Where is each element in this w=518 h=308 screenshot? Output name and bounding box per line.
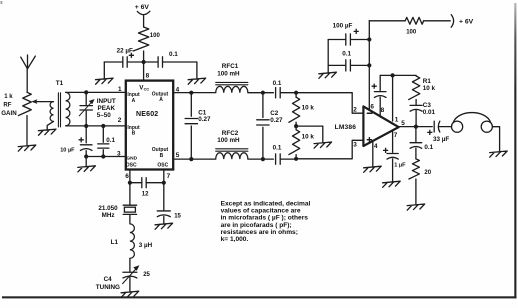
node 0.1 bypass	[367, 63, 371, 67]
capacitor 0.1 bottom coupling	[276, 154, 281, 164]
wire RFC2 to C2	[248, 158, 274, 160]
svg-text:RFC2: RFC2	[222, 130, 239, 137]
node pin1/trimmer junction	[84, 90, 88, 94]
wire 0.1 bottom to 10k	[280, 158, 296, 160]
svg-text:3: 3	[353, 141, 357, 148]
wire NE602 pin 6 down	[129, 170, 131, 183]
wire NE602 pin 4 output A rail	[173, 92, 216, 94]
trimmer capacitor INPUT PEAK 5-50	[85, 92, 87, 126]
transformer T1 primary winding	[41, 101, 54, 103]
node 10k top	[294, 91, 298, 95]
svg-text:0.1: 0.1	[273, 80, 282, 87]
capacitor 0.1 top coupling	[276, 88, 281, 98]
node 100uF	[367, 37, 371, 41]
wire pin 1	[392, 75, 394, 121]
capacitor 10uF gain (pin 8) with plus	[379, 75, 381, 116]
wire crystal to L1	[129, 215, 131, 224]
zobel capacitor 0.1	[415, 127, 417, 159]
inductor L1 3 uH	[130, 224, 135, 258]
wire C4 to ground	[129, 277, 131, 291]
svg-text:20: 20	[424, 170, 431, 176]
transformer T1 core	[58, 93, 60, 127]
pot wiper arrow	[36, 101, 41, 103]
capacitor 22 uF	[104, 61, 143, 63]
ground 0.1 supply left	[188, 78, 206, 84]
plus sign 22uF	[129, 53, 134, 58]
svg-text:12: 12	[142, 192, 149, 198]
svg-text:resistances are in ohms;: resistances are in ohms;	[221, 229, 298, 236]
svg-text:in microfarads ( µF ); others: in microfarads ( µF ); others	[221, 215, 309, 222]
wire bypass caps to ground	[327, 40, 329, 73]
ground 22uF	[96, 78, 114, 84]
svg-text:INPUT: INPUT	[97, 98, 116, 105]
wire pot bottom to ground	[26, 116, 28, 146]
svg-text:C3: C3	[423, 102, 432, 109]
ground phones	[490, 151, 508, 157]
svg-text:0.1: 0.1	[106, 137, 115, 144]
wire C3 to output node	[415, 110, 417, 126]
ground pin 7	[383, 181, 401, 187]
svg-text:8: 8	[146, 73, 150, 80]
resistor 10 k upper	[289, 97, 300, 122]
svg-text:0.1: 0.1	[342, 50, 351, 57]
svg-text:15: 15	[174, 214, 181, 220]
svg-text:3 µH: 3 µH	[139, 242, 153, 249]
wire osc feedback rail	[130, 182, 164, 184]
svg-text:R1: R1	[423, 78, 432, 85]
wire NE602 pin 7 down	[163, 170, 165, 183]
svg-text:T1: T1	[56, 80, 64, 87]
node pin3/0.1 junction	[101, 154, 105, 158]
ground supply bypass	[319, 72, 337, 78]
ground input section	[78, 166, 96, 172]
plus sign 33uF	[427, 130, 432, 135]
capacitor 0.1 (LM386 supply bypass)	[328, 64, 369, 66]
wire T1 secondary top to NE602 pin 1	[66, 91, 126, 93]
capacitor 1 uF (pin 7)	[387, 154, 398, 160]
plus sign 100uF	[354, 29, 359, 34]
node C2 bottom	[261, 157, 265, 161]
svg-text:OSC: OSC	[126, 163, 137, 169]
capacitor 12 pF	[142, 178, 146, 188]
wire 15 pF to ground	[163, 216, 165, 223]
wire L1 to C4	[129, 258, 131, 272]
svg-text:Except as indicated, decimal: Except as indicated, decimal	[221, 200, 311, 207]
capacitor 100 uF	[328, 39, 369, 41]
svg-text:100: 100	[406, 30, 417, 36]
svg-text:5–50: 5–50	[97, 112, 112, 119]
node C1 top	[189, 91, 193, 95]
wire pin 4 to ground	[372, 141, 374, 167]
wire NE602 pin 5 output B rail	[173, 158, 216, 160]
svg-text:8: 8	[381, 107, 385, 114]
capacitor C1 0.27	[190, 93, 192, 159]
RF choke RFC1 100 mH	[216, 86, 248, 92]
node pin2/0.1 junction	[101, 124, 105, 128]
svg-text:25: 25	[143, 272, 150, 278]
wire 0.1 to ground	[196, 62, 198, 79]
svg-text:5: 5	[176, 152, 180, 159]
svg-text:0.1: 0.1	[169, 51, 178, 58]
wire NE602 pin 3 to ground	[86, 156, 126, 158]
RF choke RFC2 100 mH	[216, 153, 248, 159]
capacitor 33 uF output	[434, 121, 440, 132]
wire RFC1 to C2	[248, 92, 274, 94]
svg-text:6: 6	[125, 173, 129, 180]
node C2 top	[261, 91, 265, 95]
svg-text:A: A	[132, 98, 136, 104]
svg-text:PEAK: PEAK	[98, 105, 116, 112]
svg-text:1: 1	[118, 86, 122, 93]
node C1 bottom	[189, 157, 193, 161]
wire resistor to NE602 pin 8	[143, 51, 145, 81]
capacitor 15 pF	[157, 211, 170, 217]
svg-text:100: 100	[150, 33, 161, 39]
plus sign pin 3	[367, 137, 372, 142]
svg-text:0.27: 0.27	[270, 117, 283, 124]
page bottom border	[2, 296, 516, 298]
svg-text:3: 3	[117, 150, 121, 157]
op-amp U2 LM386 body	[363, 106, 398, 146]
svg-text:10 k: 10 k	[423, 85, 436, 92]
svg-text:7: 7	[394, 132, 398, 139]
node pin1 gain rail	[391, 73, 395, 77]
svg-text:0.01: 0.01	[423, 109, 436, 116]
svg-text:10 µF: 10 µF	[60, 147, 75, 153]
wire pin6 node to crystal	[129, 183, 131, 205]
svg-text:OSC: OSC	[157, 163, 168, 169]
svg-text:GAIN: GAIN	[1, 110, 17, 117]
wire to LM386 pin 3	[296, 140, 363, 159]
ground 15pF	[155, 223, 173, 229]
svg-text:0.1: 0.1	[424, 144, 433, 151]
svg-text:C4: C4	[104, 276, 113, 283]
svg-text:NE602: NE602	[136, 111, 158, 118]
ground pin 4	[364, 166, 382, 172]
wire antenna to RF gain pot	[26, 69, 28, 93]
ground pot	[18, 145, 36, 151]
wire 10k midpoint to ground	[296, 126, 323, 142]
wire zobel to ground	[415, 179, 417, 204]
node pin2/trimmer junction	[84, 124, 88, 128]
svg-text:2: 2	[353, 106, 357, 113]
svg-text:GND: GND	[126, 156, 137, 162]
svg-text:2: 2	[118, 117, 122, 124]
plus sign 10uF	[79, 137, 84, 142]
node NE602 supply	[142, 60, 146, 64]
node output	[414, 125, 418, 129]
svg-text:+ 6V: + 6V	[459, 18, 474, 25]
svg-text:are in picofarads ( pF);: are in picofarads ( pF);	[221, 222, 292, 229]
wire pin7 node down to 15 pF	[163, 183, 165, 210]
variable capacitor C4 TUNING 25	[123, 272, 137, 278]
wire to LM386 pin 2	[296, 93, 363, 114]
svg-text:L1: L1	[111, 239, 119, 246]
svg-text:10 k: 10 k	[302, 105, 315, 112]
node pin3/10uF junction	[84, 154, 88, 158]
node 10k middle	[294, 124, 298, 128]
svg-text:0.1: 0.1	[273, 145, 282, 152]
resistor 10 k lower	[289, 130, 300, 155]
svg-text:B: B	[160, 153, 164, 159]
node 10k bottom	[294, 157, 298, 161]
svg-text:RF: RF	[3, 102, 11, 108]
svg-text:+ 6V: + 6V	[135, 4, 150, 11]
svg-text:100 mH: 100 mH	[217, 71, 240, 78]
svg-text:4: 4	[374, 143, 378, 150]
capacitor C3 0.01	[415, 100, 417, 106]
resistor 100 (NE602 supply)	[133, 27, 149, 51]
svg-text:7: 7	[167, 173, 171, 180]
svg-text:10 k: 10 k	[302, 133, 315, 140]
ground T1 primary	[38, 129, 56, 135]
svg-text:values of capacitance are: values of capacitance are	[221, 208, 301, 215]
capacitor 10 uF (electrolytic)	[85, 126, 87, 157]
wire phones to ground	[492, 127, 499, 151]
wire 22uF to ground	[103, 62, 105, 79]
wire +6V rail down to LM386 pin 6	[368, 21, 370, 111]
wire T1 primary bottom to ground	[47, 121, 53, 129]
svg-text:0.27: 0.27	[198, 116, 211, 123]
node pin7	[162, 181, 166, 185]
antenna	[21, 55, 36, 69]
wire 33uF to phones	[439, 126, 452, 128]
svg-text:33 µF: 33 µF	[433, 136, 449, 143]
wire pin 7 bypass	[392, 131, 394, 182]
wire gain rail pin1-pin8-R1	[380, 74, 416, 76]
resistor 20 zobel	[409, 159, 420, 179]
scan artifact top-left	[1, 1, 3, 4]
svg-text:MHz: MHz	[102, 212, 115, 219]
svg-text:100 mH: 100 mH	[217, 137, 240, 144]
svg-text:LM386: LM386	[335, 124, 357, 131]
op-amp U1 NE602 body	[126, 81, 173, 170]
potentiometer R 1k RF GAIN	[18, 92, 31, 115]
supply connector stub right	[451, 15, 453, 28]
svg-text:CC: CC	[144, 87, 150, 92]
node pin6	[128, 181, 132, 185]
capacitor C2 0.27	[262, 93, 264, 159]
ground C4	[121, 291, 139, 297]
svg-text:TUNING: TUNING	[96, 284, 120, 291]
resistor R1 10 k	[409, 76, 420, 100]
svg-text:21.050: 21.050	[98, 205, 118, 212]
capacitor 0.1 (input bypass)	[102, 126, 104, 157]
ground 10k divider	[314, 142, 332, 148]
svg-text:k= 1,000.: k= 1,000.	[221, 236, 249, 243]
svg-text:RFC1: RFC1	[222, 63, 239, 70]
wire 0.1 top to 10k	[280, 92, 296, 94]
minus sign pin 2	[367, 112, 372, 114]
svg-text:1: 1	[395, 117, 399, 124]
wire LM386 output pin 5	[399, 126, 433, 128]
crystal 21.050 MHz	[123, 204, 136, 206]
svg-text:B: B	[132, 131, 136, 137]
plus sign 1uF	[383, 148, 388, 153]
supply connector stub	[137, 11, 150, 27]
capacitor 0.1 (NE602 supply bypass)	[144, 61, 197, 63]
transformer T1 secondary winding	[66, 92, 70, 125]
svg-text:1 k: 1 k	[4, 94, 13, 100]
wire T1 secondary bottom to NE602 pin 2	[66, 125, 126, 127]
plus sign gain cap	[372, 84, 377, 89]
svg-text:A: A	[159, 97, 163, 103]
svg-text:1 µF: 1 µF	[394, 163, 406, 169]
svg-text:6: 6	[370, 103, 374, 110]
ground zobel	[407, 204, 425, 210]
resistor 100 (LM386 supply)	[424, 20, 451, 22]
headphones	[452, 121, 463, 132]
svg-text:22 µF: 22 µF	[117, 48, 133, 55]
svg-text:100 µF: 100 µF	[333, 22, 353, 29]
